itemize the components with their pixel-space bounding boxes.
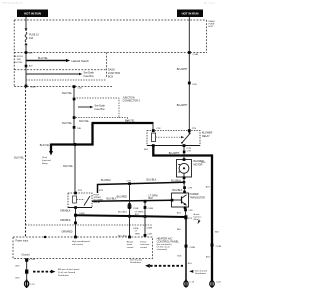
svg-text:BLK: BLK [206, 256, 211, 258]
svg-text:GRN: GRN [135, 233, 140, 235]
svg-text:1997 Hyundai Accent: 1997 Hyundai Accent [2, 2, 23, 5]
svg-text:BLK/YEL: BLK/YEL [62, 122, 72, 125]
svg-text:BLU/BLK: BLU/BLK [173, 189, 183, 192]
svg-text:BLU/WHT: BLU/WHT [177, 68, 188, 71]
svg-text:C-20: C-20 [216, 282, 222, 284]
svg-text:CONNECTOR 3: CONNECTOR 3 [123, 99, 141, 102]
svg-text:RELAY: RELAY [202, 135, 210, 138]
svg-text:BLU/BLK: BLU/BLK [118, 211, 128, 213]
svg-text:C-10: C-10 [30, 284, 36, 286]
svg-text:4TN: 4TN [99, 190, 104, 192]
svg-text:C40B: C40B [133, 228, 139, 230]
svg-text:10A: 10A [29, 37, 34, 40]
svg-text:BLK: BLK [178, 255, 183, 257]
svg-text:C24B: C24B [216, 246, 222, 248]
svg-text:HOT IN RUN: HOT IN RUN [24, 12, 41, 16]
svg-text:Hazard Switch: Hazard Switch [72, 59, 90, 63]
svg-text:C40B: C40B [79, 213, 85, 215]
svg-text:BLK: BLK [206, 187, 211, 189]
svg-text:High speed/speed: High speed/speed [72, 241, 90, 243]
svg-text:BLK: BLK [177, 229, 182, 231]
svg-text:motor: motor [127, 243, 133, 246]
svg-text:2TN: 2TN [192, 128, 197, 130]
svg-text:BLK/YEL: BLK/YEL [14, 56, 24, 58]
svg-text:FUSE 10: FUSE 10 [29, 33, 39, 36]
svg-text:ride control: ride control [72, 243, 83, 246]
svg-text:C40B: C40B [30, 86, 36, 88]
svg-text:C04B: C04B [193, 54, 199, 56]
svg-text:Fuse Box: Fuse Box [84, 75, 95, 78]
svg-text:TRANSISTOR: TRANSISTOR [190, 196, 206, 199]
svg-text:(Fuel: (Fuel [42, 157, 47, 159]
svg-text:Power: Power [140, 240, 146, 243]
svg-text:C4B: C4B [78, 87, 83, 89]
svg-text:BLK/YEL: BLK/YEL [14, 62, 24, 64]
svg-text:BLK/YEL: BLK/YEL [40, 144, 50, 147]
svg-text:Injection): Injection) [42, 159, 51, 162]
svg-text:BLU/WHT: BLU/WHT [169, 152, 180, 155]
svg-text:BLU/BLK: BLU/BLK [101, 179, 111, 182]
svg-text:BLK: BLK [149, 197, 154, 200]
svg-text:BLK/YEL: BLK/YEL [79, 120, 89, 123]
svg-text:Ground: Ground [22, 254, 31, 257]
svg-text:Distribution: Distribution [58, 274, 70, 277]
svg-text:FUSE: FUSE [209, 24, 215, 26]
svg-text:C-10: C-10 [189, 282, 195, 284]
svg-text:transistor: transistor [140, 243, 149, 246]
svg-text:MOTOR: MOTOR [194, 164, 203, 167]
svg-text:ORN/BLK: ORN/BLK [60, 219, 71, 222]
svg-text:Distribution: Distribution [130, 261, 142, 264]
svg-text:control: control [140, 246, 147, 249]
svg-text:control: control [127, 246, 134, 249]
svg-text:RELAY: RELAY [94, 201, 102, 204]
svg-text:4TN: 4TN [188, 218, 193, 220]
svg-text:BLK: BLK [188, 263, 193, 265]
svg-text:Power input: Power input [16, 239, 29, 242]
svg-text:Blower: Blower [127, 240, 134, 243]
svg-text:See Ground: See Ground [195, 269, 208, 272]
svg-text:BLK/YEL: BLK/YEL [63, 165, 73, 168]
svg-text:HOT IN RUN: HOT IN RUN [182, 12, 199, 16]
svg-text:BOX: BOX [108, 76, 113, 79]
svg-text:BLK: BLK [135, 214, 140, 216]
svg-text:Distribution: Distribution [195, 272, 207, 275]
svg-text:BLU/BLK: BLU/BLK [147, 179, 157, 182]
svg-text:C7N: C7N [127, 180, 132, 182]
svg-text:BLK/YEL: BLK/YEL [125, 120, 135, 123]
svg-text:24B: 24B [17, 59, 21, 61]
svg-text:ORN/RED: ORN/RED [62, 231, 73, 234]
svg-text:4TN: 4TN [78, 190, 83, 192]
svg-text:C7N: C7N [156, 128, 161, 130]
svg-text:C7N: C7N [188, 188, 193, 190]
svg-text:C4B8: C4B8 [148, 208, 154, 210]
svg-text:BLK: BLK [177, 212, 182, 214]
svg-text:C7N: C7N [188, 210, 193, 212]
svg-text:DASH: DASH [209, 20, 215, 23]
svg-text:BLU/RED: BLU/RED [117, 195, 128, 198]
svg-text:C7N: C7N [187, 151, 192, 153]
svg-text:BOX: BOX [209, 26, 214, 28]
svg-text:C4B: C4B [148, 234, 153, 236]
svg-text:(1 of) see Ground: (1 of) see Ground [58, 271, 76, 274]
svg-text:Fuse Box: Fuse Box [95, 108, 106, 111]
svg-text:C24B: C24B [133, 208, 139, 210]
svg-text:BLK/YEL: BLK/YEL [14, 157, 24, 160]
svg-text:BLK: BLK [16, 266, 21, 268]
svg-text:BLU/WHT: BLU/WHT [177, 104, 188, 107]
svg-text:CONTROL PANEL: CONTROL PANEL [157, 239, 180, 243]
svg-text:BLU/BLK: BLU/BLK [107, 197, 117, 200]
svg-text:C4B8: C4B8 [147, 228, 153, 230]
svg-text:Relay: Relay [42, 163, 48, 165]
svg-text:schematic): schematic) [157, 248, 168, 251]
svg-text:BLK: BLK [215, 231, 220, 233]
svg-text:24B: 24B [77, 128, 81, 130]
svg-text:BLU/YEL: BLU/YEL [38, 57, 49, 60]
svg-text:4 TN8: 4 TN8 [29, 259, 36, 261]
svg-text:BLK: BLK [16, 277, 21, 279]
svg-text:BR wire of dash panel: BR wire of dash panel [58, 268, 80, 271]
svg-text:BLK/YEL: BLK/YEL [62, 92, 72, 95]
svg-text:ORN/BLK: ORN/BLK [60, 209, 71, 212]
svg-text:C48B: C48B [190, 247, 196, 249]
svg-text:A/C Circuit: A/C Circuit [204, 2, 215, 5]
